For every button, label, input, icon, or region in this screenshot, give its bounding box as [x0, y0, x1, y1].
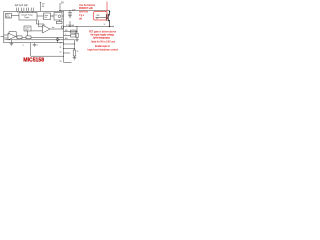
capacitor C6 comp box — [71, 34, 77, 37]
wire pin stub VIN label — [40, 3, 42, 12]
pin bubble output — [61, 26, 63, 28]
svg-text:5V: 5V — [61, 3, 64, 5]
svg-text:4: 4 — [37, 45, 38, 47]
svg-text:FET gate is driven above: FET gate is driven above — [89, 31, 117, 34]
red leader line — [106, 2, 108, 12]
capacitor C5 input bypass — [68, 11, 72, 16]
node bus c — [63, 53, 64, 54]
wire amp inputs — [4, 35, 8, 38]
wire gate — [96, 17, 107, 19]
op-amp internal box level shift — [44, 13, 51, 20]
svg-text:low Ron: low Ron — [79, 12, 89, 14]
driver circle — [58, 15, 61, 18]
svg-text:13: 13 — [60, 61, 62, 63]
svg-text:Q1: Q1 — [96, 18, 98, 20]
ground gnd pin a — [10, 43, 14, 45]
op-amp internal box driver — [54, 13, 62, 21]
node bus e — [63, 56, 64, 57]
node input cap junction — [70, 10, 71, 11]
wire enable pin — [64, 39, 75, 41]
wire pump down a — [37, 20, 45, 27]
node gate feed junction — [70, 26, 71, 27]
capacitor C2 — [22, 8, 24, 13]
wire resistor to ground — [74, 56, 76, 58]
capacitor C3 — [26, 8, 28, 13]
svg-text:Tripler: Tripler — [24, 16, 30, 19]
node VIN junction — [60, 10, 61, 11]
svg-text:1µF 1µF 1µF: 1µF 1µF 1µF — [15, 5, 29, 7]
wire bus right edge lower — [63, 43, 65, 63]
capacitor C1 — [17, 8, 19, 13]
wire internal bottom2 — [31, 36, 64, 38]
node FB junction — [77, 31, 78, 32]
wire comp pin — [64, 35, 71, 37]
wire output — [64, 26, 114, 28]
svg-text:Freq: Freq — [6, 16, 10, 18]
ground input cap — [68, 16, 72, 18]
op-amp U1 outer box MIC5158 — [4, 11, 64, 42]
svg-text:MIC5158: MIC5158 — [23, 58, 44, 64]
transistor Q1 N-channel MOSFET — [96, 11, 110, 27]
node enable stub b — [73, 47, 76, 50]
wire shift to driver — [51, 15, 55, 17]
wire driver out — [62, 15, 64, 17]
node bus b — [63, 48, 64, 49]
resistor R1 — [76, 33, 78, 37]
resistor gate drive — [57, 21, 63, 24]
svg-text:Enable input or: Enable input or — [95, 45, 110, 48]
wire internal bottom — [22, 36, 26, 38]
op-amp U3 amp — [8, 33, 16, 40]
op-amp internal box reference — [24, 26, 31, 31]
svg-text:→ Ideal for 5V to 3.3V use: → Ideal for 5V to 3.3V use — [89, 41, 116, 44]
red highlight box around MOSFET — [94, 12, 108, 21]
ground divider — [75, 40, 79, 42]
wire enable vertical — [74, 40, 76, 50]
node bus a — [63, 44, 64, 45]
wire pump down b — [39, 20, 43, 27]
capacitor FB box — [71, 30, 77, 33]
svg-text:Use N-channel: Use N-channel — [79, 5, 95, 7]
wire gnd pin b — [34, 43, 36, 45]
wire bus stub b — [64, 48, 75, 50]
resistor internal b — [26, 36, 31, 39]
svg-text:11: 11 — [60, 47, 62, 49]
node output tap junction — [77, 26, 78, 27]
wire amp out — [16, 36, 18, 39]
node drain junction — [109, 11, 110, 12]
wire left input stub — [1, 36, 4, 38]
wire bus stub d — [64, 61, 72, 63]
node driver junction — [52, 16, 53, 17]
wire ref to amp — [31, 30, 43, 32]
svg-text:Vgs: Vgs — [79, 15, 85, 17]
svg-text:z: z — [59, 39, 60, 41]
svg-text:3: 3 — [23, 45, 24, 47]
resistor R3 — [73, 50, 76, 56]
svg-text:10: 10 — [60, 43, 62, 45]
wire driver to resistor — [59, 20, 61, 21]
op-amp internal box oscillator — [6, 14, 12, 19]
node source output junction — [109, 26, 110, 27]
wire bottom rail internal — [5, 39, 64, 41]
wire feedback loop U3 — [9, 32, 16, 37]
wire bus stub a — [64, 43, 75, 45]
op-amp U2 error amp — [43, 25, 51, 33]
svg-text:by the charge pump: by the charge pump — [93, 37, 111, 40]
wire ref down — [27, 31, 29, 36]
wire osc to pump — [12, 15, 20, 17]
wire VIN rail — [59, 10, 110, 12]
svg-text:12: 12 — [60, 52, 62, 54]
capacitor C4 — [31, 8, 33, 13]
resistor internal a — [17, 36, 22, 39]
ground R3 — [73, 58, 77, 60]
svg-text:MOSFET with: MOSFET with — [79, 7, 94, 10]
wire gate feed vertical — [69, 21, 71, 27]
wire pump to shift — [37, 15, 44, 17]
wire VIN input stub — [59, 3, 61, 11]
svg-text:Drv: Drv — [55, 14, 58, 16]
svg-text:the input supply voltage: the input supply voltage — [91, 34, 115, 37]
diode D1 — [56, 37, 58, 42]
wire gnd pin a — [11, 40, 13, 43]
svg-text:logic-level shutdown control: logic-level shutdown control — [88, 48, 119, 51]
ground gnd pin b — [33, 45, 37, 47]
svg-text:Charge Pump: Charge Pump — [21, 14, 33, 17]
op-amp internal box charge pump — [19, 13, 37, 21]
wire FB pin — [64, 31, 78, 33]
wire L route from pin to bus — [31, 43, 64, 57]
wire bus stub c — [64, 52, 71, 54]
wire divider vertical — [76, 27, 78, 40]
svg-text:Ref: Ref — [25, 30, 28, 32]
wire error amp out — [50, 28, 64, 30]
svg-text:3.3V/10A: 3.3V/10A — [66, 24, 75, 27]
node enable stub a — [73, 43, 76, 46]
